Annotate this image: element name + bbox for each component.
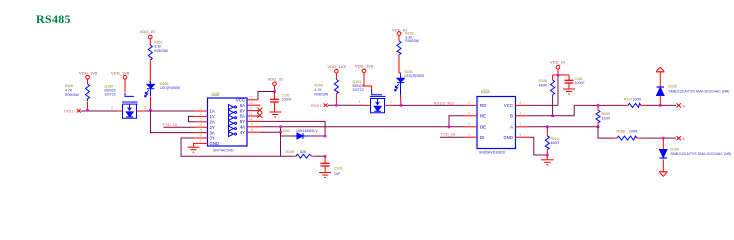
svg-text:14: 14 — [249, 96, 253, 100]
svg-text:8: 8 — [251, 128, 253, 132]
U102 right pin stubs — [247, 100, 261, 132]
svg-text:D101: D101 — [405, 70, 413, 74]
svg-text:VDD_IO: VDD_IO — [268, 77, 283, 82]
svg-text:1: 1 — [200, 107, 202, 111]
svg-text:RE: RE — [480, 114, 486, 119]
wire 5Y to cap node — [261, 121, 326, 136]
svg-text:R108: R108 — [617, 129, 625, 133]
U102 pin names — [210, 109, 220, 146]
no-ERC X pin11 — [257, 113, 262, 118]
svg-text:GND: GND — [503, 135, 513, 140]
svg-text:9: 9 — [251, 123, 253, 127]
svg-text:5: 5 — [520, 133, 522, 137]
svg-text:VDD_1V8: VDD_1V8 — [79, 71, 97, 76]
svg-text:C103: C103 — [334, 166, 342, 170]
svg-text:VCC: VCC — [236, 98, 245, 103]
svg-text:10: 10 — [249, 117, 253, 121]
svg-text:7: 7 — [200, 139, 202, 143]
svg-text:6: 6 — [520, 123, 522, 127]
ground (U101) — [541, 155, 554, 165]
svg-text:5A: 5A — [240, 114, 245, 119]
node junction RXD/LED — [399, 104, 402, 107]
svg-text:100R: 100R — [633, 97, 642, 101]
wire B net — [529, 105, 622, 115]
svg-text:4.7K: 4.7K — [65, 89, 73, 93]
U101 pin names — [480, 103, 487, 140]
svg-text:2: 2 — [111, 106, 113, 110]
svg-text:3: 3 — [391, 100, 393, 104]
svg-text:4A: 4A — [240, 125, 245, 130]
svg-text:6: 6 — [200, 134, 202, 138]
svg-text:R109: R109 — [602, 112, 610, 116]
svg-text:100nF: 100nF — [282, 98, 292, 102]
svg-text:100R: 100R — [629, 129, 638, 133]
svg-text:4: 4 — [200, 123, 202, 127]
svg-text:GND: GND — [210, 141, 220, 146]
U102 pin numbers left — [200, 107, 202, 143]
svg-text:3.3K: 3.3K — [154, 45, 162, 49]
svg-text:2: 2 — [359, 100, 361, 104]
svg-text:2A: 2A — [210, 120, 215, 125]
wire junction to U102 pin1 — [151, 110, 195, 112]
svg-text:U101: U101 — [481, 89, 489, 93]
svg-text:TXD1: TXD1 — [64, 110, 74, 114]
node junction TXD / LED — [149, 109, 152, 112]
svg-text:A: A — [510, 125, 513, 130]
svg-text:SMBJ12CA/TVS SMA-DO214AC (NR): SMBJ12CA/TVS SMA-DO214AC (NR) — [671, 152, 732, 156]
wire U101 GND — [529, 137, 548, 155]
svg-text:U102: U102 — [212, 92, 220, 96]
svg-text:8: 8 — [520, 101, 522, 105]
svg-text:R0603W: R0603W — [65, 93, 79, 97]
node junction at R100/wire — [86, 109, 89, 112]
svg-text:DI: DI — [480, 135, 484, 140]
svg-text:A: A — [683, 137, 686, 141]
U101 left pin stubs — [464, 105, 477, 137]
svg-text:6Y: 6Y — [240, 108, 245, 113]
svg-text:D102: D102 — [282, 129, 290, 133]
U102 inverter triangles — [229, 105, 237, 137]
svg-text:5Y: 5Y — [240, 119, 245, 124]
svg-text:13: 13 — [249, 101, 253, 105]
svg-text:3: 3 — [468, 123, 470, 127]
svg-text:3: 3 — [144, 106, 146, 110]
junction 120R top — [597, 104, 600, 107]
svg-text:R0603W: R0603W — [405, 39, 419, 43]
wire 4A long to DE/RE — [261, 126, 450, 128]
wire junction down to pin5 — [151, 111, 195, 133]
svg-text:D103: D103 — [669, 85, 677, 89]
power bar bottom right — [659, 172, 668, 177]
svg-text:SOT23: SOT23 — [353, 88, 364, 92]
svg-text:2: 2 — [468, 112, 470, 116]
svg-text:2Y: 2Y — [210, 125, 215, 130]
svg-text:6A: 6A — [240, 103, 245, 108]
U102 pin numbers right — [249, 96, 253, 132]
svg-text:480R: 480R — [551, 141, 560, 145]
svg-text:1nF: 1nF — [334, 172, 340, 176]
svg-text:100nF: 100nF — [575, 81, 585, 85]
svg-text:R100: R100 — [65, 84, 73, 88]
svg-text:VDD_IO: VDD_IO — [140, 29, 155, 34]
svg-text:4Y: 4Y — [240, 130, 245, 135]
wire loop 1Y to 2A — [189, 116, 195, 121]
svg-text:480R: 480R — [539, 83, 548, 87]
wire 4Y down to RC — [261, 127, 281, 156]
svg-text:DE: DE — [480, 125, 486, 130]
svg-text:VDD_1V8: VDD_1V8 — [111, 71, 129, 76]
svg-text:2: 2 — [200, 112, 202, 116]
svg-text:SN74HC04D: SN74HC04D — [213, 148, 234, 152]
svg-text:7: 7 — [520, 112, 522, 116]
svg-text:R104: R104 — [315, 84, 323, 88]
wire 3Y out to DI row — [181, 138, 293, 156]
svg-text:R107: R107 — [624, 97, 632, 101]
svg-text:VCC: VCC — [504, 103, 513, 108]
svg-text:RO: RO — [480, 103, 487, 108]
svg-text:TXD_DI: TXD_DI — [441, 131, 456, 136]
svg-text:3: 3 — [200, 118, 202, 122]
svg-text:R0603W: R0603W — [315, 93, 329, 97]
wire A net — [529, 127, 615, 138]
svg-text:11: 11 — [249, 112, 253, 116]
svg-text:RXD1: RXD1 — [311, 104, 322, 108]
svg-text:SOT23: SOT23 — [105, 93, 116, 97]
svg-text:3A: 3A — [210, 130, 215, 135]
svg-text:4.7K: 4.7K — [315, 88, 323, 92]
svg-text:5: 5 — [200, 128, 202, 132]
svg-text:D104: D104 — [671, 147, 679, 151]
svg-text:1: 1 — [468, 101, 470, 105]
svg-text:SMBJ12CA/TVS SMA-DO214AC (NR): SMBJ12CA/TVS SMA-DO214AC (NR) — [669, 89, 730, 93]
svg-text:12: 12 — [249, 106, 253, 110]
svg-text:RS485: RS485 — [36, 12, 71, 26]
svg-text:B: B — [683, 104, 686, 108]
svg-text:SN65HVD3082E: SN65HVD3082E — [479, 150, 506, 154]
svg-text:VDD_1V8: VDD_1V8 — [328, 64, 346, 69]
svg-text:TXD_DI: TXD_DI — [163, 122, 178, 127]
svg-text:3Y: 3Y — [210, 136, 215, 141]
U101 right pin stubs — [516, 105, 529, 137]
svg-text:LED(R)0805: LED(R)0805 — [405, 74, 425, 78]
U102 left pin stubs — [194, 111, 208, 143]
svg-text:1N4148WS-V: 1N4148WS-V — [296, 129, 318, 133]
svg-text:VDD_IO: VDD_IO — [550, 60, 565, 65]
wire TXD1 to Q100 — [81, 110, 117, 112]
port A — [677, 136, 682, 140]
svg-text:1Y: 1Y — [210, 114, 215, 119]
wire VCC riser — [529, 75, 559, 105]
wire RE/DE step — [449, 116, 464, 127]
power bar top right — [656, 67, 665, 87]
svg-text:VDD_1V8: VDD_1V8 — [355, 64, 373, 69]
svg-text:R0603W: R0603W — [154, 49, 168, 53]
wire GND pin7 — [193, 143, 196, 146]
svg-text:RXD2_RO: RXD2_RO — [434, 101, 454, 106]
ground (U102) — [188, 143, 200, 152]
svg-text:LED(R)0805: LED(R)0805 — [160, 86, 180, 90]
svg-text:B: B — [510, 114, 513, 119]
svg-text:4: 4 — [468, 133, 470, 137]
svg-text:120R: 120R — [602, 117, 611, 121]
wire RXD1 to Q101 — [328, 104, 365, 106]
no-ERC X pin12 — [257, 108, 262, 113]
svg-text:R105: R105 — [286, 150, 294, 154]
port B — [677, 103, 682, 107]
U101 pin numbers — [468, 101, 522, 137]
svg-text:1A: 1A — [210, 109, 215, 114]
